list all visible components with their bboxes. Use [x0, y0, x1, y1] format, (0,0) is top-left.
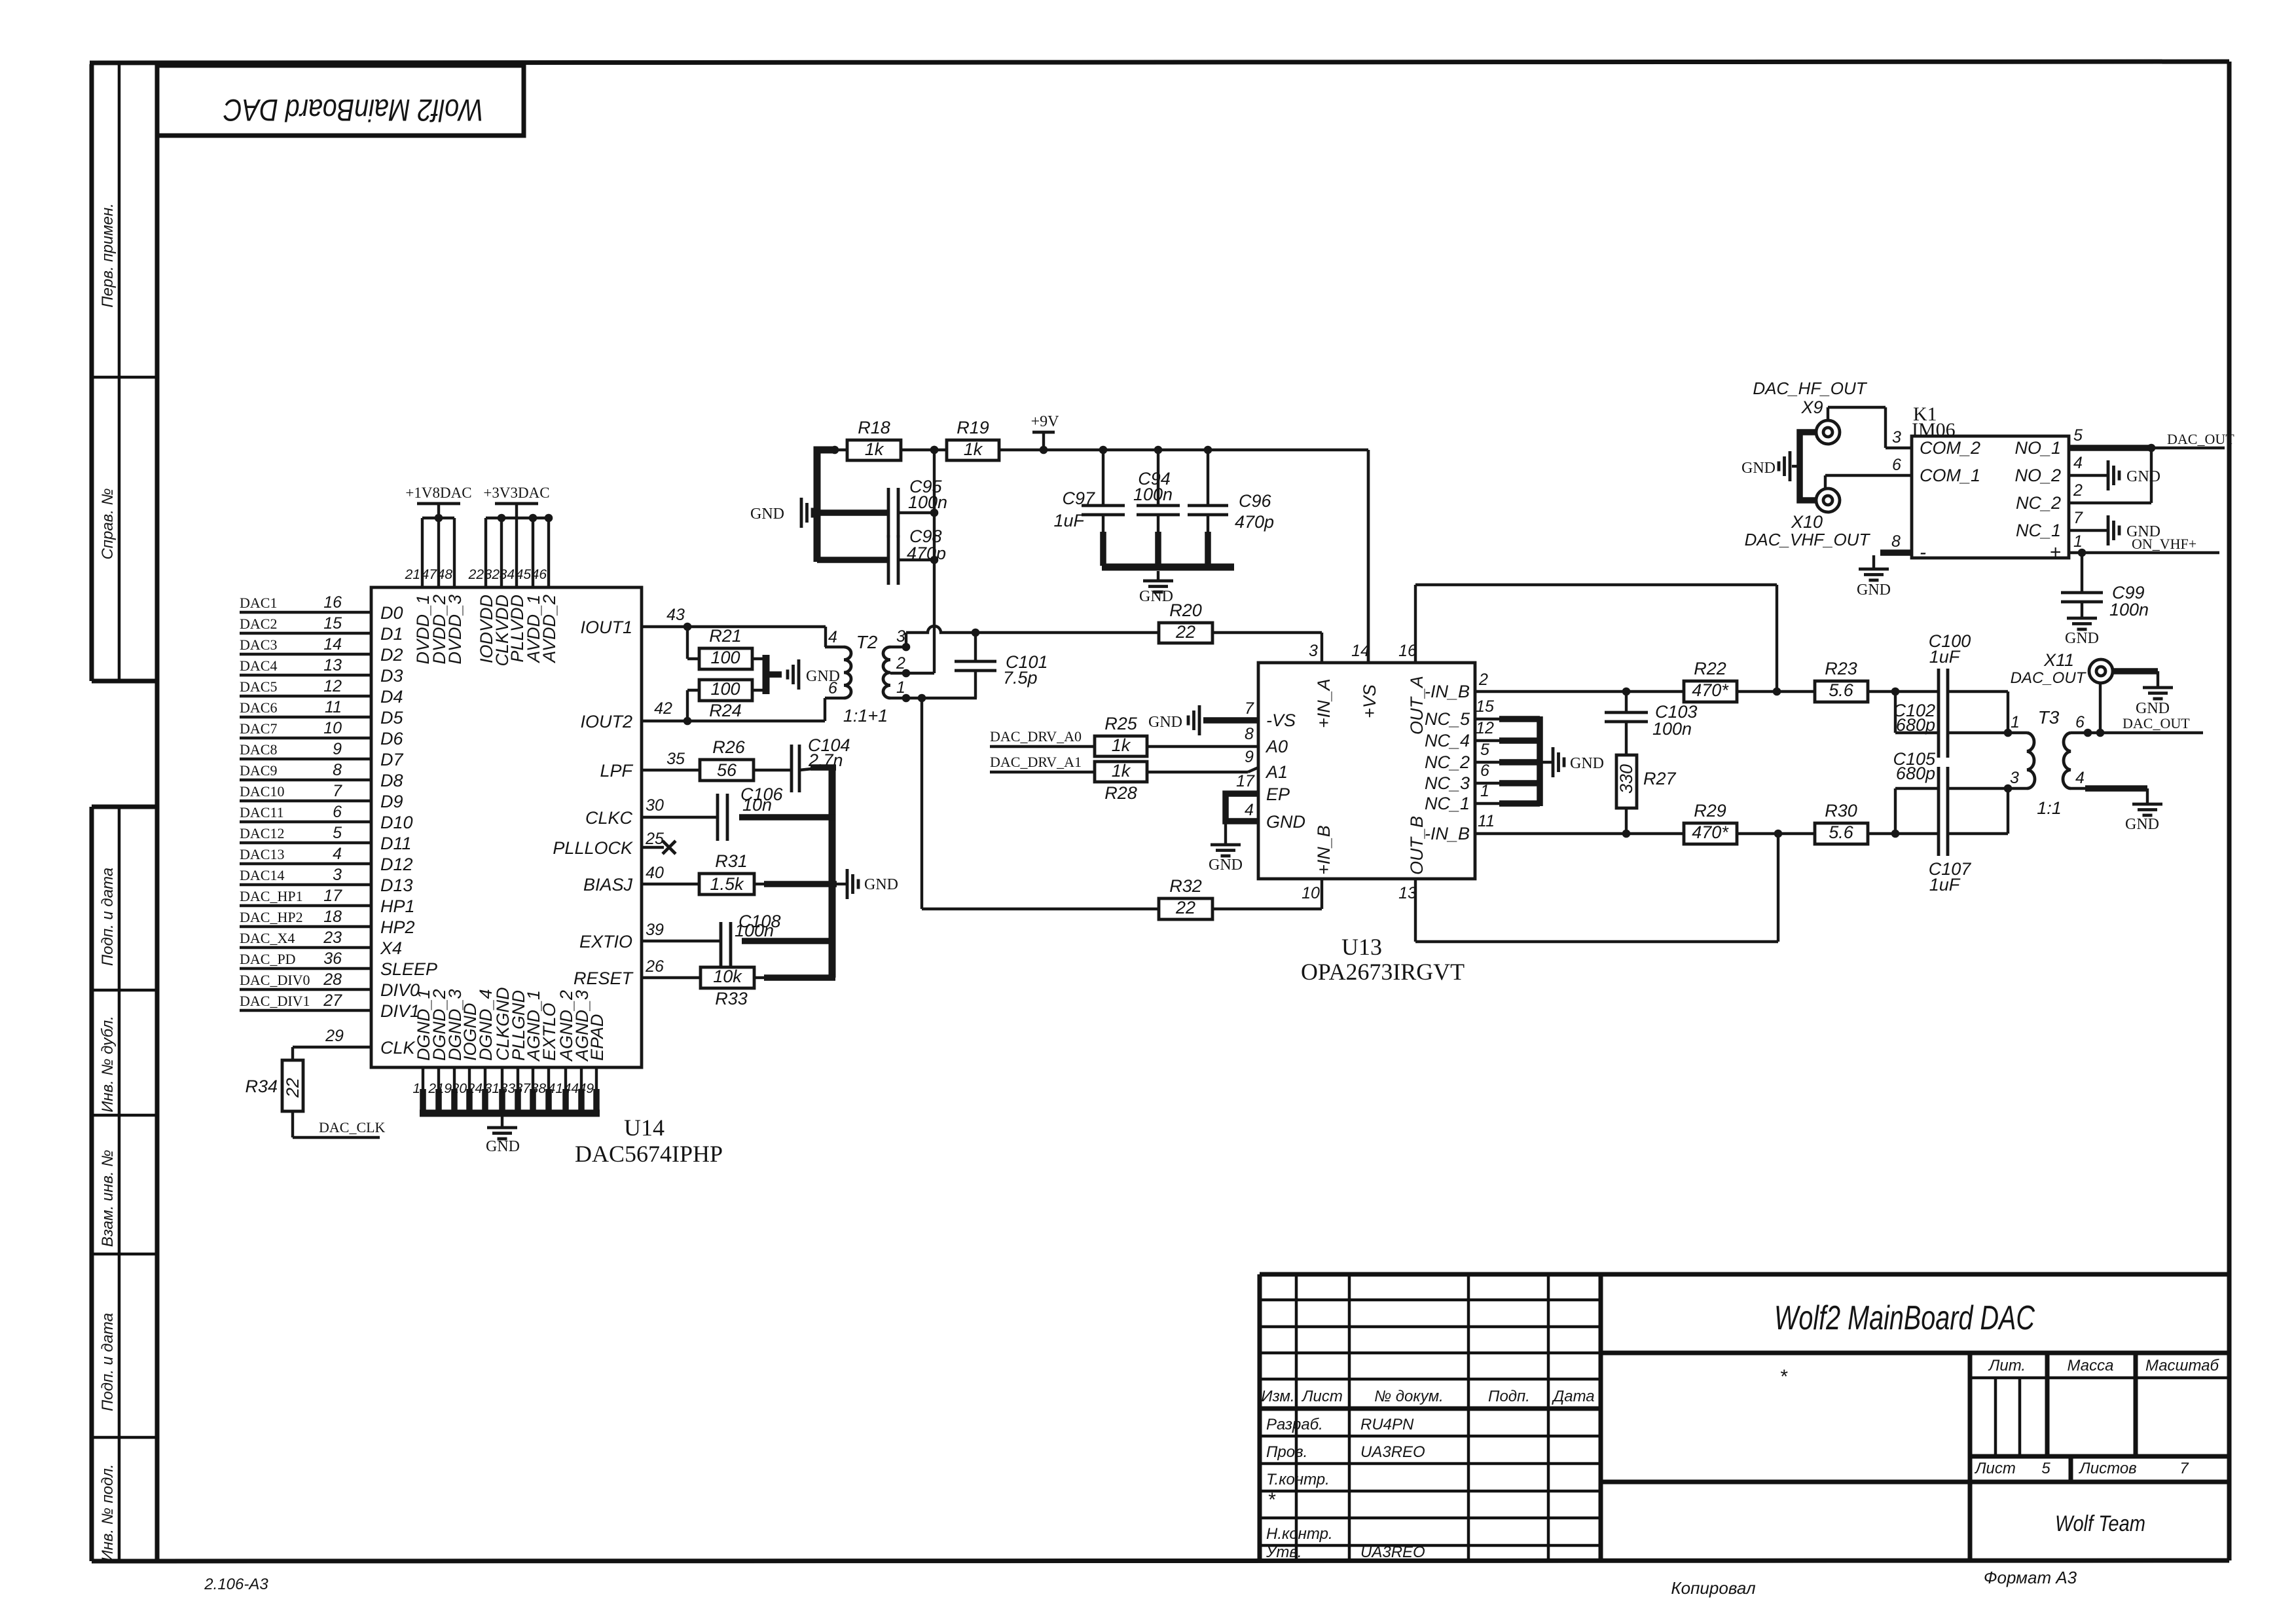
wire C108 to ground bus: [742, 938, 835, 944]
svg-text:6: 6: [1480, 762, 1489, 780]
svg-text:Листов: Листов: [2078, 1460, 2136, 1477]
svg-text:7: 7: [333, 782, 342, 800]
svg-text:8: 8: [1245, 725, 1254, 743]
svg-text:44: 44: [564, 1081, 579, 1096]
svg-text:NC_1: NC_1: [2016, 521, 2061, 540]
wire U13 pin 2 -IN_B to R22: [1475, 671, 1781, 695]
svg-text:D4: D4: [380, 687, 403, 707]
svg-text:33: 33: [500, 1081, 516, 1096]
svg-text:COM_2: COM_2: [1920, 438, 1980, 458]
svg-text:5: 5: [1480, 741, 1489, 759]
svg-text:Подп. и дата: Подп. и дата: [99, 1313, 117, 1411]
svg-text:GND: GND: [1570, 755, 1604, 772]
svg-text:8: 8: [333, 761, 342, 779]
wire IOUT1 pin 43 to T2 pin 4: [642, 606, 826, 647]
svg-text:2: 2: [2073, 481, 2083, 500]
svg-text:28: 28: [323, 970, 342, 989]
svg-text:10: 10: [323, 719, 342, 737]
svg-text:NC_2: NC_2: [1425, 752, 1470, 772]
connector X11 DAC_OUT: [2011, 650, 2113, 687]
svg-text:26: 26: [645, 957, 664, 976]
resistor R33: [701, 967, 764, 1008]
wire R28 to U13 pin 9 A1: [1147, 748, 1258, 772]
svg-text:DAC5: DAC5: [240, 678, 277, 695]
svg-text:27: 27: [323, 991, 342, 1010]
svg-text:11: 11: [1478, 812, 1495, 830]
wire T2 pin 2 riser: [906, 446, 938, 673]
wire U13 pin 10 +IN_B: [1321, 879, 1323, 909]
svg-text:DAC14: DAC14: [240, 867, 284, 883]
resistor R25: [1095, 714, 1147, 756]
svg-text:22: 22: [283, 1078, 302, 1098]
svg-text:Лит.: Лит.: [1988, 1357, 2026, 1375]
svg-text:NC_4: NC_4: [1425, 731, 1470, 750]
svg-text:100n: 100n: [1133, 485, 1173, 504]
svg-text:22: 22: [1175, 622, 1195, 642]
svg-text:R23: R23: [1825, 659, 1857, 678]
wire U14 pin 40 BIASJ: [642, 864, 699, 884]
wire T3 pin 6 DAC_OUT: [2084, 729, 2203, 737]
svg-text:DVDD_3: DVDD_3: [445, 595, 465, 665]
svg-text:36: 36: [323, 950, 342, 968]
wire C104 to ground bus: [799, 767, 836, 770]
capacitor C102 label: [1893, 701, 1935, 735]
wire net DAC_DIV1 to U14 pin 27 (DIV1): [240, 991, 420, 1021]
svg-text:Перв. примен.: Перв. примен.: [99, 203, 117, 308]
svg-text:GND: GND: [2126, 468, 2160, 485]
svg-text:GND: GND: [2125, 816, 2159, 833]
svg-text:680p: 680p: [1896, 764, 1935, 783]
svg-text:11: 11: [325, 698, 342, 716]
wire K1 pin 2 NC_2: [2069, 448, 2151, 503]
svg-text:DAC_HP2: DAC_HP2: [240, 909, 303, 925]
svg-text:DAC_OUT: DAC_OUT: [2167, 431, 2234, 447]
svg-text:BIASJ: BIASJ: [583, 875, 633, 895]
wire C100 row: [1948, 692, 2008, 733]
svg-text:6: 6: [1892, 456, 1901, 474]
wire DAC_CLK: [293, 1111, 386, 1137]
svg-text:U13: U13: [1341, 934, 1382, 960]
svg-text:U14: U14: [624, 1115, 665, 1141]
svg-text:2.106-А3: 2.106-А3: [204, 1576, 268, 1593]
wire +VS pin 14 stub: [1367, 450, 1370, 663]
svg-text:1: 1: [1480, 782, 1489, 800]
svg-text:X11: X11: [2043, 650, 2074, 670]
op-amp U13 OPA2673IRGVT body: [1258, 663, 1475, 985]
wire ground bus column: [829, 767, 836, 978]
ground GND at T3 pin 4: [2125, 788, 2162, 833]
capacitor C98: [888, 526, 946, 585]
U13 pin labels: [1265, 642, 1470, 902]
svg-text:ON_VHF+: ON_VHF+: [2132, 536, 2196, 552]
svg-text:Дата: Дата: [1551, 1388, 1594, 1405]
svg-text:1:1+1: 1:1+1: [843, 706, 888, 726]
svg-text:1uF: 1uF: [1929, 647, 1961, 667]
svg-text:5: 5: [2073, 426, 2083, 445]
capacitor C101: [955, 633, 1048, 698]
resistor R21: [687, 626, 763, 669]
wire net DAC3 to U14 pin 14 (D2): [240, 635, 403, 665]
svg-text:D8: D8: [380, 771, 403, 790]
svg-text:GND: GND: [1148, 714, 1182, 731]
svg-text:EXTIO: EXTIO: [579, 932, 632, 951]
svg-text:4: 4: [2075, 769, 2085, 787]
svg-text:HP1: HP1: [380, 896, 415, 916]
svg-text:15: 15: [1476, 697, 1494, 716]
svg-text:DAC7: DAC7: [240, 720, 277, 737]
wire C102 row: [1895, 692, 2012, 737]
svg-text:DAC3: DAC3: [240, 637, 277, 653]
wire +1V8DAC rail: [422, 514, 454, 587]
wire R22 to R23: [1737, 690, 1815, 693]
svg-text:Справ. №: Справ. №: [99, 488, 117, 559]
wire U14 pin 29 CLK: [293, 1027, 416, 1060]
svg-text:DAC_DRV_A0: DAC_DRV_A0: [990, 728, 1082, 745]
svg-text:-IN_B: -IN_B: [1425, 682, 1470, 701]
resistor R29: [1684, 801, 1737, 844]
svg-text:R27: R27: [1643, 769, 1677, 788]
svg-text:15: 15: [323, 614, 342, 633]
resistor R34: [245, 1060, 303, 1111]
svg-text:GND: GND: [864, 876, 898, 893]
svg-text:+: +: [2049, 542, 2061, 563]
svg-text:D7: D7: [380, 750, 403, 769]
svg-text:D3: D3: [380, 666, 403, 686]
ground GND under U14: [486, 1116, 520, 1155]
svg-text:DAC_OUT: DAC_OUT: [2011, 669, 2087, 687]
svg-text:14: 14: [1351, 642, 1370, 660]
svg-text:470*: 470*: [1692, 680, 1729, 700]
svg-text:29: 29: [325, 1027, 344, 1045]
ground GND at K1 pin 4: [2108, 460, 2160, 490]
svg-text:Взам. инв. №: Взам. инв. №: [99, 1150, 117, 1247]
svg-text:3: 3: [333, 866, 342, 884]
svg-text:7: 7: [1245, 699, 1254, 718]
svg-text:R31: R31: [715, 851, 748, 871]
svg-text:DAC6: DAC6: [240, 699, 277, 716]
svg-text:45: 45: [516, 567, 532, 582]
wire U14 pin 39 EXTIO: [642, 921, 721, 941]
wire net DAC10 to U14 pin 7 (D9): [240, 782, 403, 811]
svg-text:D1: D1: [380, 624, 403, 644]
svg-text:4: 4: [1245, 801, 1254, 819]
wire +3V3DAC rail: [486, 514, 553, 587]
svg-text:19: 19: [437, 1081, 452, 1096]
svg-text:R21: R21: [709, 626, 742, 646]
node ON_VHF+: [2132, 536, 2196, 552]
resistor R31: [699, 851, 764, 895]
svg-text:30: 30: [646, 796, 664, 815]
svg-text:GND: GND: [2136, 700, 2170, 717]
wire net DAC_PD to U14 pin 36 (SLEEP): [240, 950, 437, 979]
svg-text:56: 56: [717, 760, 737, 780]
svg-text:470p: 470p: [1235, 512, 1274, 532]
svg-text:1: 1: [896, 678, 905, 697]
svg-text:14: 14: [323, 635, 342, 654]
svg-text:470*: 470*: [1692, 822, 1729, 842]
svg-text:D6: D6: [380, 729, 403, 748]
svg-text:7.5p: 7.5p: [1003, 668, 1038, 688]
svg-text:NC_1: NC_1: [1425, 794, 1470, 813]
svg-text:GND: GND: [1857, 581, 1891, 599]
svg-text:D9: D9: [380, 792, 403, 811]
svg-text:49: 49: [579, 1081, 594, 1096]
capacitor C108: [721, 912, 781, 967]
node DAC_OUT at K1: [2167, 431, 2234, 447]
wire U13 NC pins to ground: [1475, 697, 1540, 806]
wire net DAC2 to U14 pin 15 (D1): [240, 614, 403, 644]
svg-text:6: 6: [828, 679, 837, 697]
svg-text:R22: R22: [1694, 659, 1726, 678]
svg-text:DAC8: DAC8: [240, 741, 277, 758]
resistor R20: [1159, 600, 1212, 643]
svg-text:47: 47: [422, 567, 438, 582]
wire net DAC1 to U14 pin 16 (D0): [240, 593, 403, 623]
svg-text:DAC4: DAC4: [240, 657, 277, 674]
svg-text:2: 2: [1478, 671, 1488, 689]
svg-text:3: 3: [896, 627, 905, 646]
svg-text:1: 1: [2073, 532, 2083, 551]
resistor R27: [1616, 755, 1677, 834]
svg-text:6: 6: [333, 803, 342, 821]
resistor R32: [1159, 876, 1212, 919]
ground GND at NC pins: [1540, 747, 1604, 777]
svg-text:D12: D12: [380, 855, 413, 874]
wire net DAC13 to U14 pin 4 (D12): [240, 845, 413, 874]
svg-text:DAC2: DAC2: [240, 616, 277, 632]
svg-text:№ докум.: № докум.: [1374, 1388, 1444, 1405]
svg-text:Копировал: Копировал: [1671, 1578, 1756, 1598]
svg-text:Подп.: Подп.: [1488, 1388, 1530, 1405]
svg-text:4: 4: [828, 628, 837, 646]
resistor R19: [947, 418, 999, 460]
svg-text:PLLLOCK: PLLLOCK: [553, 838, 633, 858]
ground GND at K1 pin 7: [2108, 515, 2160, 545]
svg-text:D10: D10: [380, 813, 413, 832]
svg-text:100n: 100n: [2109, 600, 2149, 619]
capacitor C96: [1188, 450, 1274, 532]
capacitor C105: [1893, 749, 1948, 856]
ground GND under C94: [1139, 571, 1173, 605]
capacitor C97: [1053, 450, 1125, 530]
svg-text:D11: D11: [380, 834, 412, 853]
svg-text:22: 22: [1175, 898, 1195, 917]
wire T2 pin 1 to R32: [922, 698, 1159, 909]
svg-text:R30: R30: [1825, 801, 1857, 821]
resistor R28: [1095, 761, 1147, 803]
svg-text:GND: GND: [1139, 588, 1173, 605]
svg-text:Wolf Team: Wolf Team: [2055, 1511, 2145, 1536]
capacitor C106: [718, 784, 784, 841]
wire C105 row: [1895, 784, 2012, 834]
svg-text:*: *: [1779, 1366, 1788, 1388]
svg-text:12: 12: [1476, 719, 1494, 737]
wire R25 to U13 pin 8 A0: [1147, 725, 1258, 747]
node DAC_OUT at T3: [2123, 715, 2190, 731]
svg-text:GND: GND: [1266, 812, 1305, 832]
svg-text:+9V: +9V: [1031, 413, 1060, 430]
svg-text:100: 100: [710, 679, 740, 699]
svg-text:DAC_DIV0: DAC_DIV0: [240, 972, 310, 988]
svg-text:DAC_CLK: DAC_CLK: [319, 1119, 386, 1135]
svg-text:X4: X4: [380, 938, 402, 958]
svg-text:R19: R19: [957, 418, 989, 437]
svg-text:A0: A0: [1265, 737, 1288, 756]
wire net DAC12 to U14 pin 5 (D11): [240, 824, 412, 853]
wire C106 to ground bus: [739, 814, 835, 821]
svg-text:3: 3: [1892, 428, 1901, 447]
power +1V8DAC: [405, 485, 471, 518]
svg-text:21: 21: [405, 567, 420, 582]
svg-text:Wolf2 MainBoard DAC: Wolf2 MainBoard DAC: [1774, 1299, 2035, 1337]
svg-text:GND: GND: [1741, 460, 1776, 477]
resistor R26: [700, 737, 792, 781]
power +3V3DAC: [483, 485, 549, 518]
svg-text:+IN_B: +IN_B: [1314, 825, 1334, 875]
svg-text:COM_1: COM_1: [1920, 466, 1980, 485]
wire net DAC_X4 to U14 pin 23 (X4): [240, 929, 402, 958]
connector X10 DAC_VHF_OUT: [1745, 489, 1871, 549]
wire T3 pin 4 to ground: [2085, 785, 2147, 792]
svg-text:35: 35: [666, 750, 685, 768]
svg-text:UA3REO: UA3REO: [1360, 1543, 1425, 1561]
svg-text:LPF: LPF: [600, 761, 633, 781]
svg-text:X9: X9: [1800, 397, 1823, 417]
U14 right pin names: [553, 618, 634, 988]
resistor R24: [687, 679, 763, 721]
ground GND under C99: [2065, 618, 2099, 647]
svg-text:7: 7: [2179, 1460, 2189, 1477]
capacitor C95: [888, 477, 947, 538]
svg-text:31: 31: [484, 1081, 500, 1096]
wire C107 row: [1948, 788, 2008, 834]
svg-text:NC_2: NC_2: [2016, 493, 2061, 513]
svg-text:EPAD: EPAD: [587, 1014, 607, 1061]
svg-text:100n: 100n: [908, 492, 947, 512]
wire net DAC7 to U14 pin 10 (D6): [240, 719, 403, 748]
svg-text:+1V8DAC: +1V8DAC: [405, 485, 471, 501]
svg-text:T2: T2: [856, 632, 878, 652]
wire net DAC_DIV0 to U14 pin 28 (DIV0): [240, 970, 420, 1000]
svg-text:6: 6: [2075, 713, 2085, 731]
svg-text:37: 37: [515, 1081, 532, 1096]
wire net DAC6 to U14 pin 11 (D5): [240, 698, 403, 728]
connector X9 DAC_HF_OUT: [1753, 378, 1867, 444]
svg-text:R26: R26: [712, 737, 746, 757]
wire GND feed bar at R18: [817, 446, 888, 562]
wire U13 pin 13 OUT_B feedback: [1415, 834, 1778, 942]
wire U13 EP GND jumper: [1226, 772, 1258, 821]
wire net DAC_HP2 to U14 pin 18 (HP2): [240, 908, 415, 937]
svg-text:C96: C96: [1239, 491, 1272, 511]
wire X11 stub: [2099, 683, 2102, 733]
svg-text:46: 46: [532, 567, 547, 582]
svg-text:16: 16: [323, 593, 342, 612]
wire U14 pin 26 RESET: [642, 957, 701, 978]
capacitor C99: [2061, 553, 2149, 619]
svg-text:GND: GND: [750, 506, 784, 523]
svg-text:48: 48: [437, 567, 453, 582]
svg-text:17: 17: [323, 887, 342, 905]
svg-text:13: 13: [323, 656, 342, 674]
svg-text:43: 43: [666, 606, 685, 624]
svg-text:DAC5674IPHP: DAC5674IPHP: [575, 1141, 723, 1167]
wire K1 pin 4 NO_2: [2069, 454, 2107, 475]
svg-text:UA3REO: UA3REO: [1360, 1443, 1425, 1461]
svg-text:DAC_X4: DAC_X4: [240, 930, 295, 946]
svg-text:HP2: HP2: [380, 917, 415, 937]
svg-text:100n: 100n: [735, 921, 774, 940]
svg-text:22: 22: [468, 567, 484, 582]
wire R23 to C100: [1868, 688, 1939, 696]
svg-text:D0: D0: [380, 603, 403, 623]
U14 top pin labels: [405, 567, 559, 667]
ground GND at U13 -VS pin 7: [1148, 699, 1258, 735]
capacitor C94: [1133, 450, 1180, 515]
wire X9 to K1 pin 3 COM_2: [1828, 407, 1912, 448]
svg-text:1uF: 1uF: [1929, 875, 1961, 895]
wire U14 pin 35 LPF: [642, 750, 700, 770]
svg-text:1k: 1k: [964, 439, 983, 459]
svg-text:470p: 470p: [907, 544, 946, 563]
svg-text:12: 12: [323, 677, 342, 695]
svg-text:Утв.: Утв.: [1266, 1543, 1302, 1561]
svg-text:-IN_B: -IN_B: [1425, 824, 1470, 843]
svg-text:Н.контр.: Н.контр.: [1266, 1525, 1333, 1543]
wire R31 to ground bus: [764, 881, 837, 887]
svg-text:DAC_PD: DAC_PD: [240, 951, 296, 967]
resistor R18: [847, 418, 901, 460]
svg-text:OPA2673IRGVT: OPA2673IRGVT: [1301, 959, 1465, 985]
svg-text:23: 23: [323, 929, 342, 947]
svg-text:10: 10: [1302, 884, 1320, 902]
svg-text:18: 18: [323, 908, 342, 926]
svg-text:5.6: 5.6: [1829, 822, 1854, 842]
svg-text:NO_2: NO_2: [2014, 466, 2061, 485]
svg-text:A1: A1: [1265, 762, 1288, 782]
svg-text:8: 8: [1891, 532, 1901, 551]
svg-text:39: 39: [646, 921, 664, 939]
svg-text:DAC1: DAC1: [240, 595, 277, 611]
svg-text:NC_3: NC_3: [1425, 773, 1470, 793]
svg-text:1: 1: [412, 1081, 420, 1096]
resistor R22: [1684, 659, 1737, 702]
wire X10 to K1 pin 6 COM_1: [1825, 456, 1912, 489]
ground GND at X9 X10: [1741, 451, 1800, 481]
svg-text:Лист: Лист: [1301, 1388, 1343, 1405]
wire IOUT2 pin 42 to T2 pin 6: [642, 698, 825, 725]
svg-text:Инв. № подл.: Инв. № подл.: [99, 1464, 117, 1562]
svg-text:38: 38: [531, 1081, 547, 1096]
ground GND at bus: [835, 869, 898, 899]
svg-text:2: 2: [428, 1081, 436, 1096]
svg-text:AVDD_2: AVDD_2: [539, 595, 559, 664]
svg-text:5: 5: [2041, 1460, 2050, 1477]
svg-text:R25: R25: [1104, 714, 1138, 733]
svg-text:DAC_HF_OUT: DAC_HF_OUT: [1753, 378, 1867, 398]
svg-text:GND: GND: [1209, 857, 1243, 874]
svg-text:Лист: Лист: [1974, 1460, 2016, 1477]
svg-text:9: 9: [1245, 748, 1254, 766]
svg-text:*: *: [1267, 1489, 1276, 1511]
svg-text:Инв. № дубл.: Инв. № дубл.: [99, 1016, 117, 1113]
svg-text:4: 4: [333, 845, 342, 863]
ground GND left of R18: [750, 498, 812, 528]
wire R30 to C107: [1868, 830, 1939, 838]
U14 bottom GND pins: [412, 987, 607, 1111]
transformer T2: [825, 627, 910, 726]
wire K1 pin 8 to ground: [1874, 532, 1912, 568]
